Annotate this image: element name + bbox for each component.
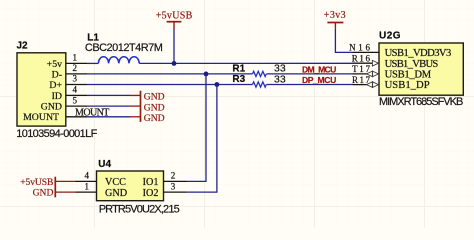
svg-text:T17: T17 [352, 64, 370, 74]
wire DM net from R1 to U2G pin T17 [267, 73, 353, 75]
J2 pin 1 [66, 53, 87, 64]
wire GND row to GND [87, 105, 130, 107]
junction at +5vUSB tap [172, 61, 177, 66]
J2 pin 6 MOUNT [66, 116, 87, 118]
wire DP net from R3 to U2G pin R17 [267, 84, 353, 86]
svg-text:33: 33 [274, 73, 286, 85]
J2 pin 4 [66, 85, 87, 96]
svg-text:4: 4 [73, 85, 78, 95]
svg-text:+5vUSB: +5vUSB [20, 177, 53, 188]
designator R3 [232, 74, 245, 85]
svg-text:MOUNT: MOUNT [23, 112, 59, 123]
svg-text:GND: GND [33, 187, 54, 198]
svg-text:2: 2 [171, 171, 176, 181]
svg-text:U4: U4 [98, 159, 111, 170]
wire D- row (DM net) to R1 [87, 73, 253, 75]
svg-text:+5vUSB: +5vUSB [156, 10, 193, 21]
power port GND (ID row) [130, 92, 165, 103]
designator U2G [379, 31, 401, 42]
J2 pin name +5v [47, 59, 62, 70]
value CBC2012T4R7M [85, 42, 163, 54]
value PRTR5V0U2X,215 [99, 203, 180, 215]
svg-text:USB1_DP: USB1_DP [385, 80, 430, 91]
power port GND (MOUNT row) [130, 113, 165, 124]
U2G pin N16 [349, 43, 379, 53]
U4 pin name GND [105, 188, 127, 199]
svg-text:IO2: IO2 [143, 188, 159, 199]
U4 pin 1 [76, 181, 97, 192]
U2G pin name USB1_DP [385, 80, 430, 91]
wire +5v row from pin1 to inductor [87, 62, 98, 64]
power port GND (GND row) [130, 102, 165, 113]
svg-text:N16: N16 [349, 43, 370, 53]
value MIMXRT685SFVKB [379, 96, 463, 108]
svg-text:3: 3 [171, 181, 176, 191]
wire +5vUSB row from inductor to U2G pin R16 [139, 62, 352, 64]
svg-text:R16: R16 [352, 53, 371, 63]
junction DP to U4 [215, 82, 220, 87]
svg-text:10103594-0001LF: 10103594-0001LF [16, 128, 97, 140]
J2 pin 2 [66, 63, 87, 74]
svg-text:J2: J2 [17, 41, 29, 52]
net label DP_MCU [302, 75, 336, 85]
power port +5vUSB (U4 VCC) [20, 177, 75, 188]
svg-text:USB1_VBUS: USB1_VBUS [385, 59, 439, 70]
U4 pin 3 [164, 181, 187, 192]
J2 pin name GND [41, 102, 62, 113]
svg-text:GND: GND [144, 92, 165, 103]
resistor R3 [253, 82, 267, 87]
svg-text:+3v3: +3v3 [324, 10, 346, 21]
wire ID row to GND [87, 94, 130, 96]
net label MOUNT [75, 107, 109, 118]
svg-text:2: 2 [73, 63, 78, 73]
J2 pin 3 [66, 74, 87, 85]
svg-text:R3: R3 [232, 74, 245, 85]
svg-text:R1: R1 [232, 63, 245, 74]
U2G pin R16 [352, 53, 379, 66]
designator R1 [232, 63, 245, 74]
svg-text:GND: GND [144, 113, 165, 124]
svg-text:R17: R17 [352, 75, 371, 85]
designator L1 [87, 32, 99, 43]
U4 pin name IO1 [143, 177, 159, 188]
wire +3v3 to U2G pin N16 [335, 29, 352, 53]
svg-text:+5v: +5v [47, 59, 62, 70]
wire D+ row (DP net) to R3 [87, 84, 253, 86]
U2G pin name USB1_VBUS [385, 59, 439, 70]
wire +5vUSB vertical drop [173, 30, 175, 64]
svg-text:3: 3 [73, 74, 78, 84]
J2 pin name ID [52, 91, 62, 102]
power port +5vUSB [156, 10, 193, 29]
net label DM_MCU [302, 65, 336, 75]
svg-text:GND: GND [41, 102, 62, 113]
wire MOUNT row to GND [87, 116, 130, 118]
power port +3v3 [324, 10, 346, 28]
svg-text:DM_MCU: DM_MCU [302, 65, 336, 75]
U4 pin name IO2 [143, 188, 159, 199]
svg-text:1: 1 [85, 181, 90, 191]
svg-text:GND: GND [105, 188, 127, 199]
value 33 (R1) [274, 63, 286, 75]
svg-text:ID: ID [52, 91, 62, 102]
svg-text:1: 1 [73, 53, 78, 63]
junction DM to U4 [204, 72, 209, 77]
svg-text:U2G: U2G [379, 31, 401, 42]
svg-text:PRTR5V0U2X,215: PRTR5V0U2X,215 [99, 203, 180, 215]
IC U4 body [97, 171, 164, 201]
connector J2 body [17, 53, 66, 126]
J2 pin name MOUNT [23, 112, 59, 123]
svg-text:MIMXRT685SFVKB: MIMXRT685SFVKB [379, 96, 463, 108]
wire DP vertical to U4 IO2 [187, 85, 217, 193]
U2G pin T17 [352, 64, 379, 77]
value 33 (R3) [274, 73, 286, 85]
svg-text:GND: GND [144, 102, 165, 113]
svg-text:USB1_VDD3V3: USB1_VDD3V3 [385, 48, 452, 59]
svg-text:CBC2012T4R7M: CBC2012T4R7M [85, 42, 163, 54]
svg-text:4: 4 [85, 171, 90, 181]
J2 pin name D- [52, 69, 62, 80]
svg-text:DP_MCU: DP_MCU [302, 75, 336, 85]
J2 pin name D+ [49, 80, 62, 91]
svg-text:D+: D+ [49, 80, 62, 91]
U2G pin name USB1_VDD3V3 [385, 48, 452, 59]
U4 pin name VCC [105, 177, 126, 188]
svg-text:USB1_DM: USB1_DM [385, 70, 432, 81]
svg-text:IO1: IO1 [143, 177, 159, 188]
U2G pin name USB1_DM [385, 70, 432, 81]
svg-text:D-: D- [52, 69, 62, 80]
U2G pin R17 [352, 75, 379, 88]
inductor L1 [98, 57, 139, 64]
svg-text:MOUNT: MOUNT [75, 107, 109, 118]
power port GND (U4 GND) [33, 187, 76, 198]
svg-text:5: 5 [73, 95, 78, 105]
wire DM vertical to U4 IO1 [187, 74, 207, 181]
GND ports bar [140, 91, 142, 122]
svg-text:VCC: VCC [105, 177, 126, 188]
J2 pin 5 [66, 95, 87, 106]
U4 pin 4 [76, 171, 97, 182]
resistor R1 [253, 71, 267, 76]
designator U4 [98, 159, 111, 170]
designator J2 [17, 41, 29, 52]
IC U2G body [379, 43, 463, 95]
U4 pin 2 [164, 171, 187, 182]
U4 ports bar [54, 177, 56, 198]
value 10103594-0001LF [16, 128, 97, 140]
